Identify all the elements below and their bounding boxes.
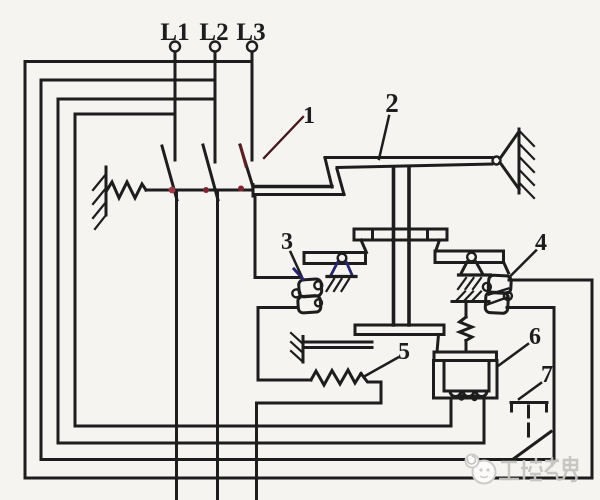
wire L1 feed <box>174 52 177 160</box>
terminal L1 <box>170 42 180 52</box>
armature plate <box>434 352 497 361</box>
link left <box>361 240 367 253</box>
svg-text:6: 6 <box>529 324 541 350</box>
anchor wall mid <box>291 333 303 362</box>
switch 7 blade <box>514 432 551 459</box>
pivot base right <box>459 273 491 276</box>
fixed hatch under 4 <box>452 292 489 302</box>
contact dot L1 <box>169 187 176 194</box>
pivot base left <box>327 275 356 278</box>
wire spring5 step <box>257 374 382 500</box>
blue mark <box>294 269 303 279</box>
wire L1 out <box>175 191 178 500</box>
leader 3 <box>291 252 302 276</box>
pivot wall <box>519 129 534 198</box>
pivot hatch left <box>327 279 350 291</box>
wire loop2 bottom <box>41 458 554 461</box>
wire loop1 top <box>25 60 252 63</box>
coil 6 outer <box>434 361 498 399</box>
svg-text:4: 4 <box>535 230 547 256</box>
svg-text:7: 7 <box>541 362 553 388</box>
leader 6 <box>498 344 528 366</box>
contact stack 3 <box>291 279 324 314</box>
blade L2 <box>203 145 218 200</box>
leader 7 <box>519 383 541 399</box>
arm left <box>304 253 366 264</box>
wire loop3 top <box>58 98 215 101</box>
contact dot L2 <box>203 187 209 193</box>
terminal L3 <box>247 42 257 52</box>
lever 2 top edge <box>325 156 492 159</box>
wire loop3 left <box>57 99 60 443</box>
pivot triangle right <box>461 262 484 275</box>
coil lead left <box>450 398 453 426</box>
wire loop1 left <box>24 62 27 479</box>
coil dots <box>458 394 464 400</box>
spring armature <box>465 302 468 318</box>
wire contact4 upper <box>509 279 592 282</box>
lever pivot triangle <box>500 132 519 190</box>
pivot circle left <box>338 254 347 263</box>
spring contact return <box>107 182 146 198</box>
wire L2 out <box>216 191 219 500</box>
leader 2 <box>379 116 389 159</box>
wire loop4 top <box>75 113 175 116</box>
wire right outer <box>591 280 594 478</box>
blade L3 tint <box>241 146 247 166</box>
blade L3 <box>240 145 253 187</box>
lever pivot circle <box>493 157 501 165</box>
arm right <box>435 251 504 263</box>
arm link to contact4 <box>504 262 509 273</box>
upper crossbar <box>354 229 447 240</box>
switch 7 contact bar <box>511 403 547 412</box>
pivot triangle left (blue) <box>331 263 353 277</box>
wire contact4 lower <box>507 306 554 309</box>
pivot hatch right <box>458 278 481 289</box>
coil lead right <box>483 398 486 443</box>
pivot circle right <box>467 253 476 262</box>
leader 5 <box>365 358 398 377</box>
wire bridge <box>146 189 253 192</box>
wire L3 feed <box>251 52 254 160</box>
wire loop2 left <box>40 80 43 460</box>
anchor wall left <box>93 167 106 229</box>
link bar to armature <box>437 335 439 353</box>
leader 4 <box>511 251 537 277</box>
contact stack 4 <box>482 275 513 314</box>
wire loop2 top <box>41 79 215 82</box>
blade L1 <box>162 146 177 200</box>
link right <box>436 240 440 252</box>
bottom crossbar <box>355 325 444 335</box>
switch 7 stem <box>527 406 530 436</box>
wire loop4 left <box>74 114 77 426</box>
wire contact3 lower <box>258 308 311 381</box>
svg-text:1: 1 <box>303 103 315 129</box>
leader 1 <box>264 117 303 158</box>
terminal L2 <box>210 42 220 52</box>
stem <box>394 169 410 326</box>
bridge to lever step <box>325 158 332 187</box>
coil bumps <box>450 391 487 397</box>
wire right inner <box>553 308 556 460</box>
wire contact3 upper <box>255 196 299 278</box>
wire loop3 bottom <box>58 442 484 445</box>
wire L2 feed <box>214 52 217 162</box>
guide rod <box>305 342 372 348</box>
wire loop1 bottom <box>25 477 592 480</box>
contact dot L3 <box>238 186 244 192</box>
watermark ghost logo <box>466 455 496 484</box>
svg-text:5: 5 <box>398 339 410 365</box>
coil 6 inner <box>444 361 489 392</box>
lever 2 bottom edge <box>337 164 492 168</box>
spring 5 <box>311 370 361 385</box>
watermark text <box>499 456 577 481</box>
wire loop4 bottom <box>75 425 451 428</box>
bridge bar <box>253 185 344 197</box>
svg-text:2: 2 <box>385 88 399 118</box>
